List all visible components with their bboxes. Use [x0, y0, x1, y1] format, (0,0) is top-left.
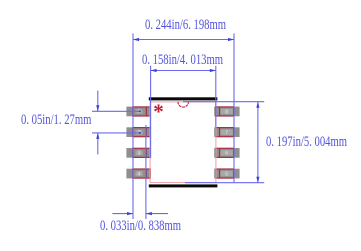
pin number box 2 — [136, 130, 143, 136]
pitch dim vertical upper — [97, 91, 99, 112]
dim line 5.004 — [257, 102, 259, 183]
pad 6 — [214, 148, 239, 158]
svg-text:4: 4 — [138, 171, 141, 177]
svg-text:8: 8 — [225, 109, 228, 115]
lead outline pin4 — [133, 169, 151, 178]
pin number box 3 — [136, 151, 143, 157]
lead outline pin2 — [133, 128, 151, 137]
pin number box 8 — [220, 109, 232, 116]
arrowhead 4.013 right — [210, 69, 216, 72]
arrowhead 6.198 right — [228, 38, 234, 41]
dim text 0.197in/5.004mm — [266, 135, 347, 150]
arrowhead 5.004 up — [256, 102, 259, 108]
extension line bottom of 5.004 dim — [185, 182, 264, 184]
top assembly bar — [149, 97, 218, 100]
lead outline pin8 — [216, 107, 234, 116]
pin number box 4 — [136, 171, 143, 177]
lead outline pin1 — [133, 107, 151, 116]
svg-text:7: 7 — [225, 130, 228, 136]
pin number box 6 — [220, 150, 232, 157]
extension line left of 6.198 dim — [132, 33, 134, 219]
dim line 0.838 right part — [146, 213, 168, 215]
pad 1 — [126, 107, 150, 117]
arrowhead pitch up — [96, 133, 99, 139]
dim line 0.838 left part — [112, 213, 133, 215]
dim text 0.033in/0.838mm — [100, 219, 181, 234]
lead outline pin5 — [216, 169, 234, 178]
pad 5 — [214, 169, 239, 179]
dim text 0.158in/4.013mm — [142, 53, 223, 68]
lead outline pin7 — [216, 128, 234, 137]
arrowhead 6.198 left — [133, 38, 139, 41]
pin number box 5 — [220, 171, 232, 178]
pin number box 1 — [136, 109, 143, 115]
body outline — [150, 102, 216, 183]
arrowhead 0.838 left-pointing — [146, 212, 152, 215]
pad 3 — [126, 148, 150, 158]
pin number box 7 — [220, 130, 232, 137]
leader line pin2 — [92, 132, 140, 134]
arrowhead pitch down — [96, 105, 99, 111]
bottom assembly bar — [149, 184, 218, 187]
leader line pin1 — [92, 110, 140, 112]
arrowhead 0.838 right-pointing — [127, 212, 133, 215]
extension line right of 4.013 dim — [215, 66, 217, 127]
dim text 0.05in/1.27mm — [21, 113, 91, 128]
pin1 notch arc — [178, 102, 189, 107]
dim line 4.013 — [151, 70, 216, 72]
leader dot pin1 — [139, 110, 141, 112]
dim text 0.244in/6.198mm — [145, 18, 226, 33]
arrowhead 4.013 left — [151, 69, 157, 72]
svg-text:*: * — [153, 100, 164, 124]
extension line left of 4.013 dim — [150, 66, 152, 158]
extension line right of 0.838 dim — [145, 125, 147, 219]
svg-text:3: 3 — [138, 151, 141, 157]
svg-text:5: 5 — [225, 171, 228, 177]
extension line right of 6.198 dim — [233, 33, 235, 183]
pad 7 — [214, 127, 239, 137]
pitch dim vertical lower — [97, 133, 99, 155]
lead outline pin6 — [216, 148, 234, 157]
pad 2 — [126, 127, 150, 137]
pad 8 — [214, 107, 239, 117]
dim line 6.198 — [133, 39, 234, 41]
lead outline pin3 — [133, 148, 151, 157]
pad 4 — [126, 169, 150, 179]
arrowhead 5.004 down — [256, 177, 259, 183]
svg-text:6: 6 — [225, 151, 228, 157]
leader dot pin2 — [139, 132, 141, 134]
extension line top of 5.004 dim — [183, 101, 264, 103]
